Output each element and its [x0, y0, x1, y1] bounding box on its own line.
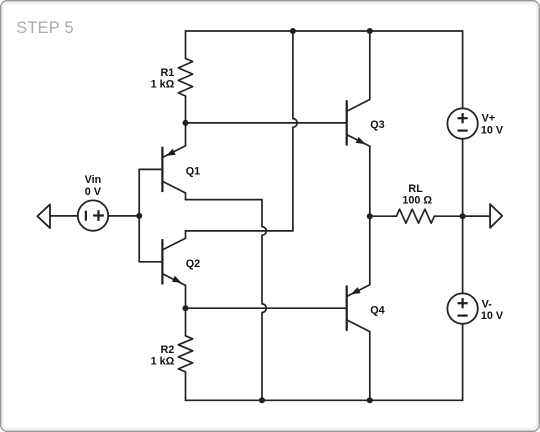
- wire V+ column top: [462, 31, 464, 108]
- resistor R1: [178, 31, 192, 123]
- transistor Q1: [139, 146, 185, 200]
- svg-text:Q3: Q3: [370, 119, 384, 131]
- svg-text:Q4: Q4: [370, 304, 384, 316]
- svg-text:Vin: Vin: [85, 174, 102, 186]
- wire output node to port OUT: [463, 215, 491, 217]
- node A junction: [183, 120, 189, 126]
- wire Q3 collector to top rail: [369, 31, 371, 100]
- svg-text:10 V: 10 V: [481, 310, 504, 322]
- node output junction: [367, 213, 373, 219]
- resistor RL: [370, 209, 489, 223]
- port OUT: [490, 204, 502, 228]
- node right rail junction: [460, 213, 466, 219]
- wire Q3 emitter to output node: [369, 146, 371, 216]
- svg-text:1 kΩ: 1 kΩ: [151, 356, 175, 368]
- label R1 1 kOhm: [151, 67, 175, 90]
- node bottom rail at Q4 collector: [367, 397, 373, 403]
- svg-text:Q2: Q2: [186, 258, 200, 270]
- node top rail at Q2 collector riser: [290, 28, 296, 34]
- wire Q1 emitter to node A: [185, 123, 187, 146]
- label Vin 0 V: [85, 174, 102, 198]
- svg-text:10 V: 10 V: [481, 124, 504, 136]
- transistor Q3: [347, 100, 370, 147]
- transistor Q4: [347, 285, 370, 332]
- wire port IN to Vin: [50, 215, 78, 217]
- label V+ 10 V: [481, 113, 504, 137]
- wire top rail: [186, 30, 463, 32]
- wire base column: [138, 169, 140, 261]
- node B junction: [183, 305, 189, 311]
- label R2 1 kOhm: [151, 344, 175, 368]
- wire node A to Q3 base: [186, 122, 347, 124]
- wire Q1 collector to bottom rail with hops: [186, 200, 267, 401]
- resistor R2: [178, 308, 192, 400]
- svg-text:0 V: 0 V: [85, 186, 102, 198]
- label RL 100 Ohm: [402, 183, 432, 207]
- wire V column middle: [462, 139, 464, 294]
- svg-text:V+: V+: [482, 113, 496, 125]
- svg-text:Q1: Q1: [186, 165, 200, 177]
- source Vin: [78, 200, 108, 230]
- svg-text:100 Ω: 100 Ω: [402, 194, 432, 206]
- wire Vin to input node: [108, 215, 139, 217]
- svg-text:RL: RL: [408, 183, 423, 195]
- transistor Q2: [139, 231, 185, 308]
- svg-text:STEP 5: STEP 5: [16, 19, 74, 37]
- wire Q4 collector to bottom rail: [369, 332, 371, 401]
- node top rail at Q3 collector: [367, 28, 373, 34]
- svg-text:1 kΩ: 1 kΩ: [151, 78, 175, 90]
- node input junction: [136, 213, 142, 219]
- source V-: [447, 293, 477, 323]
- port IN: [37, 204, 50, 228]
- source V+: [447, 108, 477, 138]
- svg-text:R1: R1: [160, 67, 174, 79]
- wire Q4 emitter to output node: [369, 216, 371, 285]
- label V- 10 V: [481, 298, 504, 322]
- wire bottom rail: [186, 399, 463, 401]
- wire V- column bottom: [462, 324, 464, 401]
- node bottom rail at Q1 collector drop: [259, 397, 265, 403]
- svg-text:R2: R2: [160, 344, 174, 356]
- wire node B to Q4 base: [186, 307, 347, 309]
- wire Q2 collector to top rail with hop: [186, 31, 298, 231]
- svg-text:V-: V-: [482, 298, 493, 310]
